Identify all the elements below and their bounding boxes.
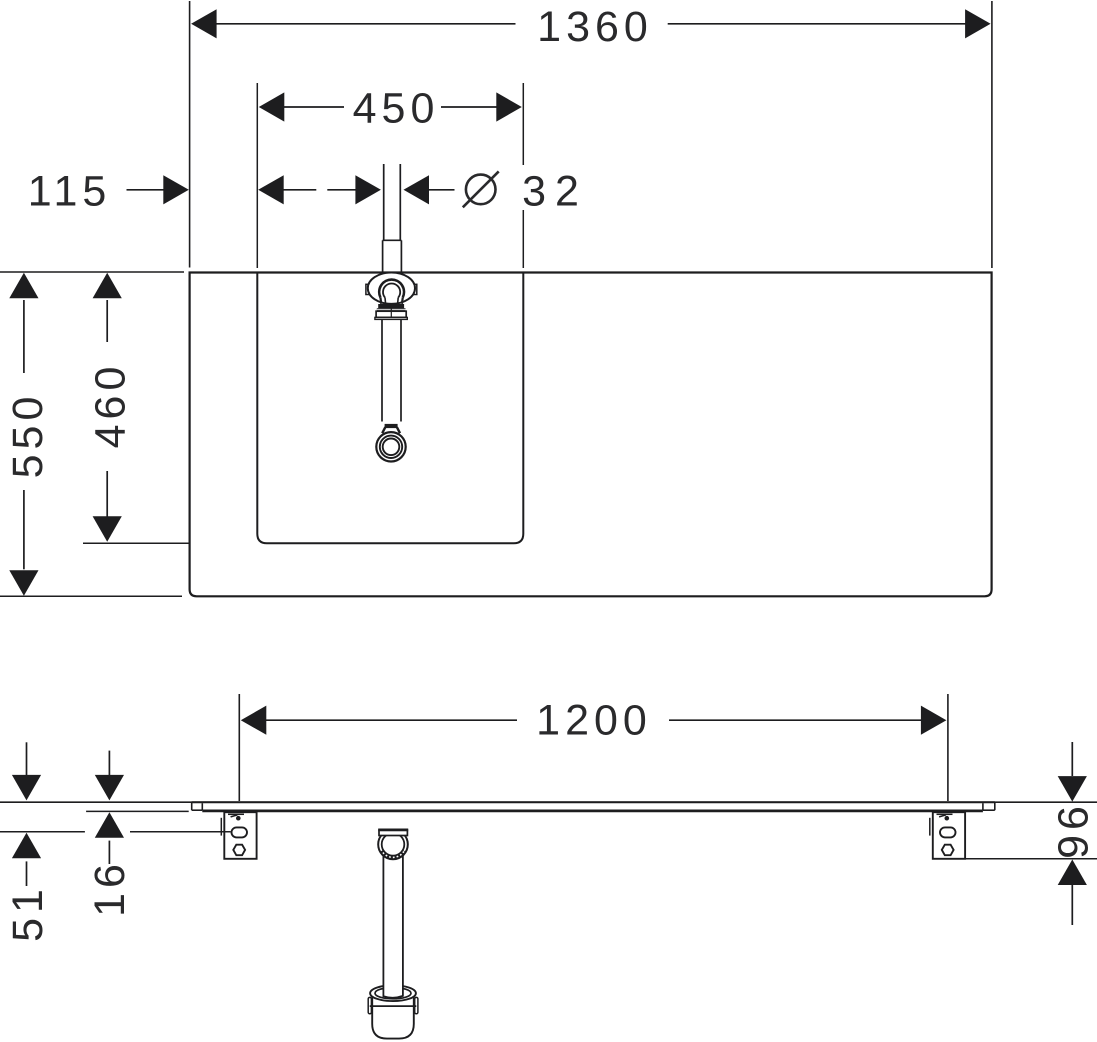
- dim 460 bottom arrow: [93, 516, 122, 542]
- svg-text:1200: 1200: [536, 697, 652, 745]
- collar base: [375, 317, 407, 319]
- hole spacing arrow right (at hole): [355, 175, 381, 204]
- dim 450 left extension line: [256, 83, 258, 268]
- dim 96 up arrow: [1058, 860, 1087, 886]
- dim 1200 right arrow: [921, 706, 947, 735]
- dim 550 line: [23, 300, 25, 569]
- flange side tab right: [412, 284, 417, 294]
- dim 16 up arrow: [95, 812, 124, 838]
- dim 1360 line: [216, 23, 967, 25]
- svg-text:550: 550: [4, 392, 52, 479]
- dim 450 right extension line: [522, 83, 524, 268]
- right mounting bracket: [930, 812, 965, 859]
- dim 51 line: [26, 742, 28, 886]
- slab bottom thick line: [202, 810, 983, 813]
- trap outlet ring hatch: [382, 851, 405, 858]
- dim 450 right arrow: [496, 92, 522, 121]
- slab top line with side extensions: [0, 801, 1097, 803]
- pipe clamp: [385, 424, 398, 428]
- drain ring (top view): [376, 432, 405, 461]
- dim 96 bottom extension line: [966, 858, 1097, 860]
- svg-text:460: 460: [87, 362, 135, 449]
- trap outlet ring (front view): [378, 830, 408, 860]
- trap cup clip right: [415, 997, 418, 1013]
- dim 1360 right arrow: [965, 9, 991, 38]
- trap vertical pipe: [383, 855, 403, 998]
- basin outline: [257, 273, 523, 544]
- dim 450 left arrow: [259, 92, 285, 121]
- tailpipe (top view): [382, 319, 401, 421]
- slab left end cap: [192, 802, 203, 810]
- dim O32 label: [463, 171, 499, 207]
- dim 1200 right extension line: [947, 694, 949, 801]
- dim 460 line: [106, 300, 108, 517]
- trap cup rim outer ellipse: [370, 985, 416, 1001]
- dim 96 down arrow: [1058, 776, 1087, 802]
- slab right end cap: [983, 802, 995, 810]
- trap top bar: [379, 830, 407, 835]
- trap cup rim inner ellipse: [375, 988, 411, 999]
- hole spacing arrow left (at basin edge): [258, 175, 284, 204]
- console outline (top view): [190, 273, 992, 597]
- dim 16 line: [108, 751, 110, 864]
- svg-text:115: 115: [28, 168, 112, 216]
- dim 550 top arrow: [9, 273, 38, 299]
- dim O32 leader line: [429, 189, 455, 191]
- svg-text:96: 96: [1050, 801, 1097, 859]
- svg-text:16: 16: [86, 859, 134, 917]
- flange inner ring (horseshoe): [379, 280, 404, 304]
- dim 51 bottom extension line: [0, 831, 231, 833]
- dim 460 bottom extension line: [83, 542, 190, 544]
- dim 115 arrow: [163, 175, 189, 204]
- dim 16 down arrow: [95, 775, 124, 801]
- dim 550 top extension line: [0, 271, 184, 273]
- trap cup clip left: [368, 997, 371, 1013]
- collar center seam: [390, 304, 392, 317]
- svg-text:450: 450: [353, 85, 440, 133]
- dim 1360 right extension line: [991, 1, 993, 268]
- dim 460 top arrow: [93, 273, 122, 299]
- seal band lower: [377, 308, 406, 311]
- dim 1360 left arrow: [191, 9, 217, 38]
- hole spacing line: [283, 189, 355, 191]
- dim 550 bottom arrow: [9, 570, 38, 596]
- trap cup body: [372, 998, 414, 1039]
- svg-text:32: 32: [522, 168, 588, 216]
- dim 51 down arrow: [12, 775, 41, 801]
- svg-text:51: 51: [4, 884, 52, 942]
- dim 1360 left extension line: [189, 1, 191, 268]
- dim 1200 left arrow: [241, 706, 266, 735]
- dim 450 line: [284, 106, 497, 108]
- dim 115 leader line: [127, 189, 166, 191]
- dim 1200 left extension line: [238, 694, 240, 801]
- dim O32 arrow (left pointing at hole right edge): [404, 175, 430, 204]
- dim 96 line: [1071, 742, 1073, 925]
- collar nut: [376, 311, 406, 317]
- dim 1200 line: [266, 719, 921, 721]
- dim 16 bottom extension line: [86, 810, 189, 812]
- left mounting bracket: [221, 812, 256, 859]
- dim 550 bottom extension line: [0, 595, 182, 597]
- trap cup band line: [370, 1005, 417, 1007]
- tap hole flange outer ellipse: [368, 273, 415, 304]
- dim 51 up arrow: [12, 833, 41, 859]
- svg-text:1360: 1360: [537, 3, 653, 51]
- flange side tab left: [366, 284, 371, 294]
- seal band: [378, 304, 404, 308]
- faucet supply pipe: [383, 164, 402, 275]
